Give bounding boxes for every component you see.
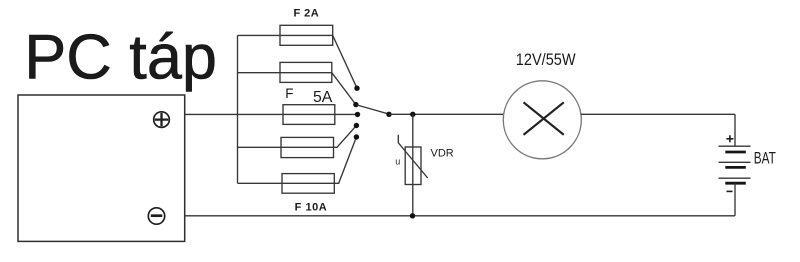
wire plus output (185, 113, 283, 115)
contact 4 (354, 123, 359, 128)
wire pole to lamp (389, 113, 504, 115)
contact 1 (354, 86, 359, 91)
svg-text:VDR: VDR (431, 148, 454, 160)
PSU box (18, 95, 185, 241)
wire F1 to contact 1 (333, 35, 357, 88)
node VDR top junction (410, 112, 415, 117)
svg-text:PC táp: PC táp (24, 23, 217, 93)
svg-text:F 10A: F 10A (295, 202, 328, 214)
terminal - (minus) (148, 208, 164, 224)
contact 5 (354, 134, 359, 139)
lamp 12V/55W (503, 81, 581, 159)
fuse F5 10A (282, 174, 334, 194)
wire lamp to battery (581, 113, 735, 115)
wire bus to fuse F2 (238, 72, 281, 74)
terminal + (plus) (154, 112, 170, 128)
fuse F2 (280, 62, 332, 82)
svg-text:u: u (395, 156, 400, 166)
wire F5 to contact 5 (334, 137, 356, 183)
switch pole (386, 112, 391, 117)
wire bus to fuse F4 (238, 146, 282, 148)
wire minus bottom rail (185, 215, 735, 217)
wire bus to fuse F1 (238, 34, 281, 36)
wire bus to fuse F5 (238, 182, 283, 184)
wire VDR branch (412, 114, 414, 216)
fuse F4 (281, 137, 334, 157)
battery BAT (719, 114, 751, 216)
contact 2 (353, 102, 358, 107)
wire F2 to contact 2 (332, 73, 356, 105)
label battery plus (726, 135, 733, 142)
svg-text:12V/55W: 12V/55W (516, 51, 576, 69)
label battery minus (727, 190, 733, 192)
fuse F3 5A (283, 105, 355, 125)
wire fuse input bus (237, 35, 239, 183)
varistor VDR (398, 135, 427, 185)
svg-text:5A: 5A (313, 89, 333, 106)
contact 3 (355, 112, 360, 117)
svg-text:F 2A: F 2A (294, 8, 320, 20)
wire F4 to contact 4 (334, 126, 357, 148)
switch arm (357, 105, 389, 114)
fuse F1 2A (280, 25, 333, 45)
svg-text:F: F (285, 86, 293, 101)
node VDR bottom junction (410, 213, 415, 218)
svg-text:BAT: BAT (754, 150, 776, 168)
